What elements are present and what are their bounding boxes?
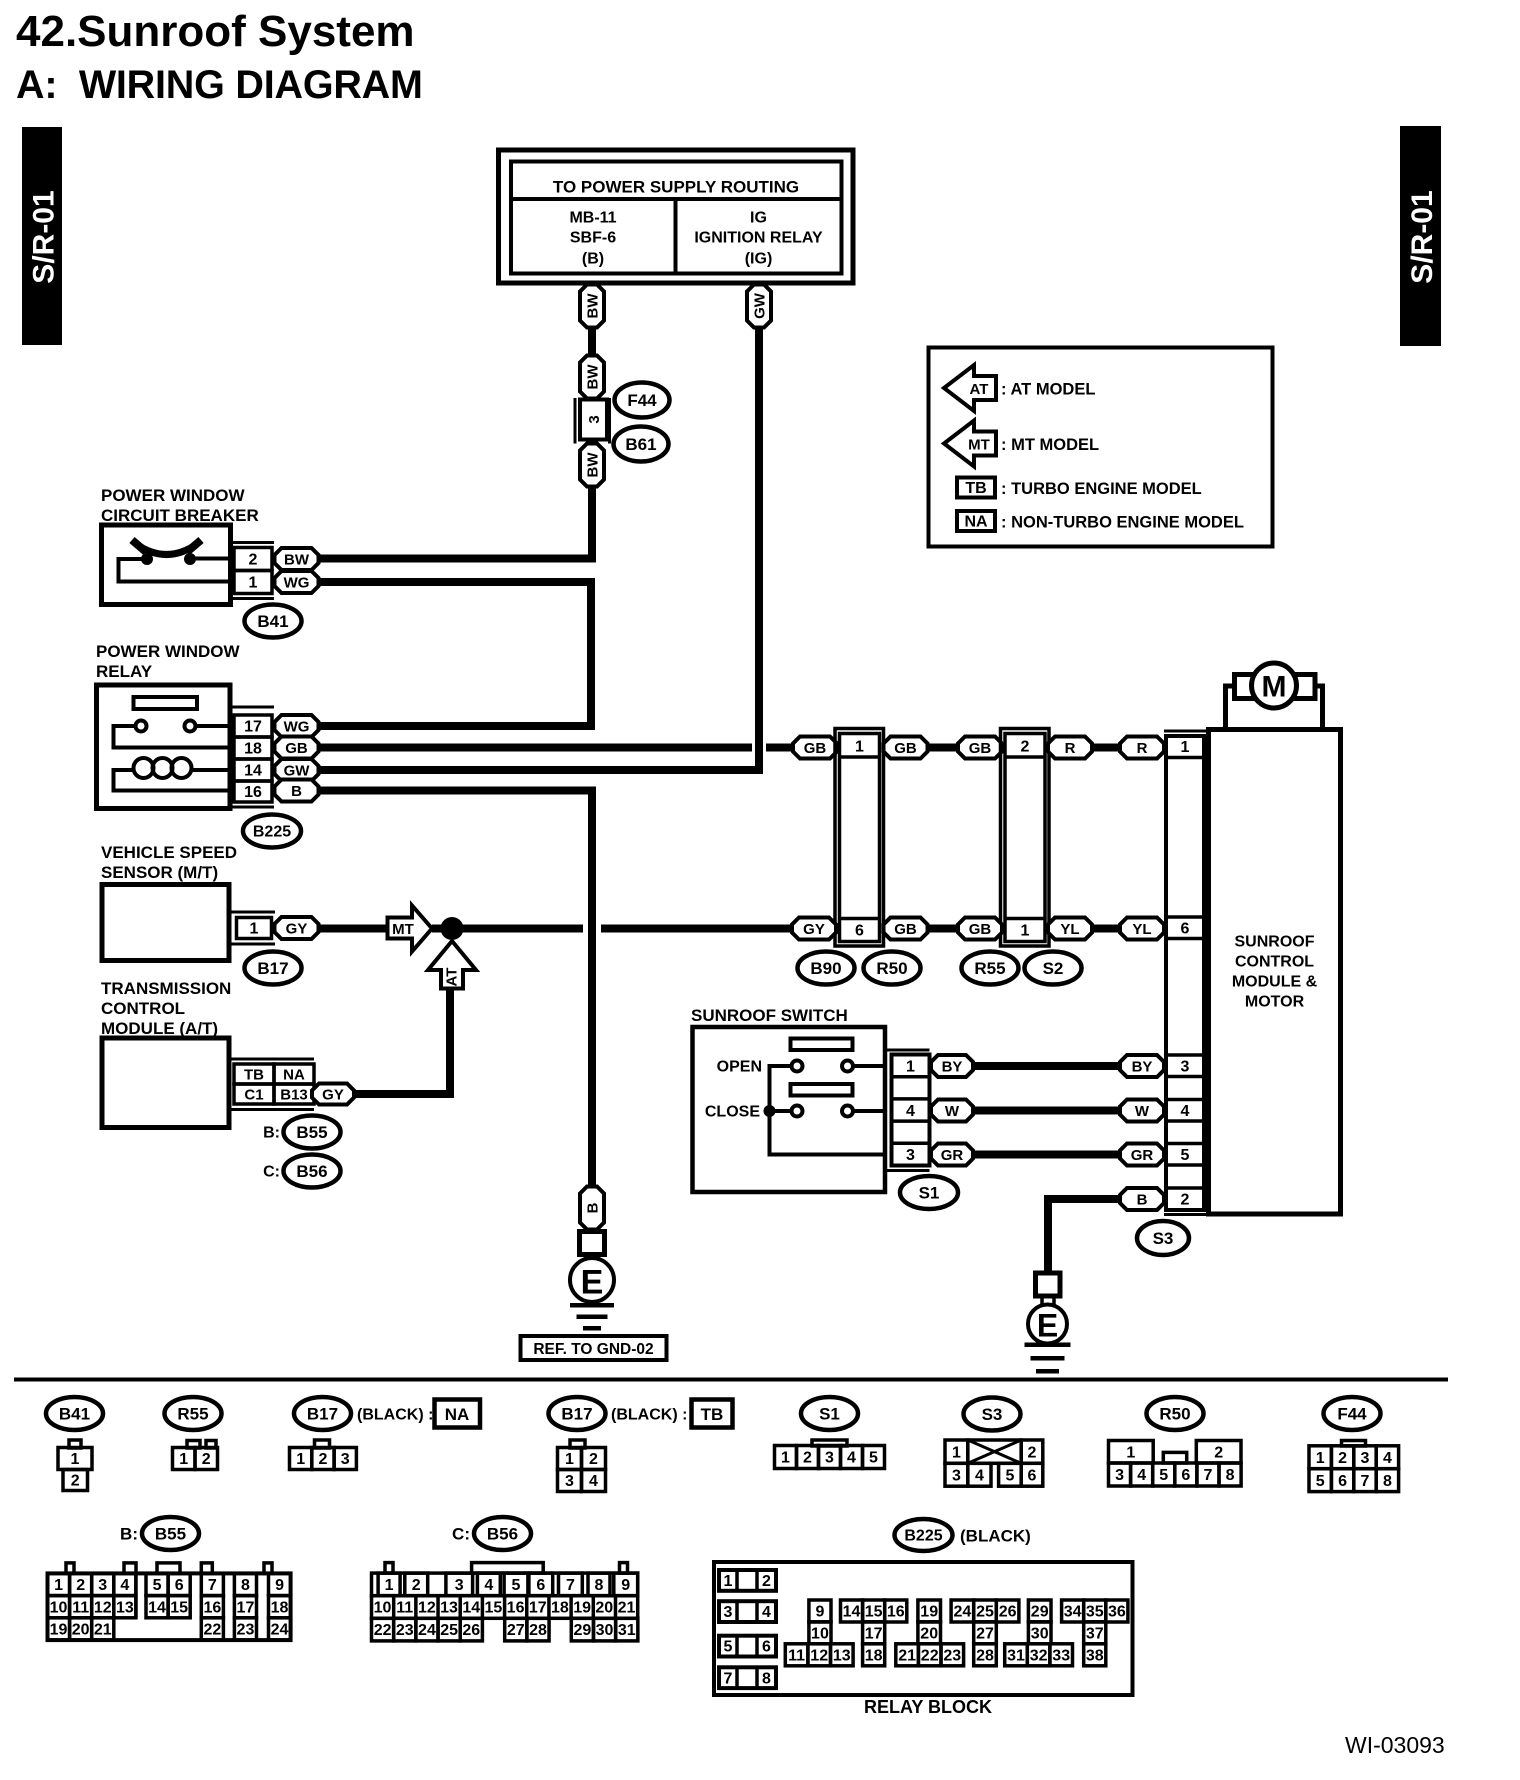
svg-text:GB: GB xyxy=(969,921,992,938)
svg-text:1: 1 xyxy=(906,1059,915,1076)
svg-text:S3: S3 xyxy=(982,1405,1003,1424)
wire GB between strips bottom xyxy=(928,925,958,933)
connector GY chain xyxy=(792,918,836,940)
wire GY speed sensor xyxy=(318,925,388,933)
svg-text:RELAY: RELAY xyxy=(96,662,153,681)
page tab S/R-01 right xyxy=(1400,126,1441,346)
svg-text:NA: NA xyxy=(964,514,988,531)
svg-text:31: 31 xyxy=(618,1622,636,1639)
svg-text:4: 4 xyxy=(484,1577,493,1594)
svg-text:YL: YL xyxy=(1060,921,1079,938)
sunroof control module box xyxy=(1209,730,1341,1215)
svg-text:BY: BY xyxy=(942,1058,963,1075)
svg-text:19: 19 xyxy=(573,1600,591,1617)
svg-text:(BLACK) :: (BLACK) : xyxy=(357,1407,433,1424)
svg-text:TRANSMISSION: TRANSMISSION xyxy=(101,979,231,998)
motor M xyxy=(1226,663,1323,729)
connector GB chain 4 xyxy=(884,918,928,940)
svg-text:(BLACK) :: (BLACK) : xyxy=(611,1407,687,1424)
svg-text:3: 3 xyxy=(1361,1450,1370,1467)
svg-text:: MT MODEL: : MT MODEL xyxy=(1001,436,1099,454)
ground symbol left xyxy=(570,1303,614,1331)
svg-text:2: 2 xyxy=(589,1451,598,1468)
legend AT model arrow xyxy=(944,365,1095,411)
svg-text:14: 14 xyxy=(462,1600,480,1617)
svg-text:7: 7 xyxy=(724,1670,733,1687)
speed sensor terminal housing xyxy=(230,912,276,944)
svg-text:16: 16 xyxy=(507,1600,525,1617)
svg-text:33: 33 xyxy=(1052,1647,1070,1664)
connector oval B17 xyxy=(245,952,302,985)
svg-text:S1: S1 xyxy=(919,1183,940,1202)
terminal TB xyxy=(234,1064,274,1084)
svg-text:R: R xyxy=(1137,740,1148,757)
svg-text:1: 1 xyxy=(1316,1450,1325,1467)
svg-text:29: 29 xyxy=(1031,1604,1049,1621)
svg-text:30: 30 xyxy=(1031,1625,1049,1642)
junction dot xyxy=(441,917,464,940)
power supply routing box xyxy=(499,150,854,283)
wire WG breaker to relay pin 17 xyxy=(318,578,595,730)
label power window circuit breaker xyxy=(101,486,259,525)
svg-text:2: 2 xyxy=(249,552,258,569)
svg-text:B:: B: xyxy=(120,1524,138,1543)
svg-text:TO POWER SUPPLY ROUTING: TO POWER SUPPLY ROUTING xyxy=(553,177,799,196)
connector BY at switch xyxy=(931,1055,973,1077)
terminal 18 xyxy=(234,737,272,759)
svg-text:POWER WINDOW: POWER WINDOW xyxy=(96,642,240,661)
connector GR at module xyxy=(1120,1144,1164,1166)
svg-text:21: 21 xyxy=(618,1600,636,1617)
connector view B41 xyxy=(46,1397,103,1491)
svg-text:15: 15 xyxy=(865,1604,883,1621)
svg-text:SENSOR (M/T): SENSOR (M/T) xyxy=(101,863,218,882)
svg-text:C:: C: xyxy=(263,1164,280,1181)
svg-text:14: 14 xyxy=(843,1604,861,1621)
svg-text:21: 21 xyxy=(898,1647,916,1664)
wire GY junction to module (break at ground wire) xyxy=(432,925,791,933)
svg-text:4: 4 xyxy=(120,1577,129,1594)
svg-text:11: 11 xyxy=(72,1599,89,1616)
connector view B55 xyxy=(48,1517,291,1640)
switch terminal strip xyxy=(892,1055,930,1166)
ground terminal left xyxy=(570,1232,614,1303)
separator line xyxy=(14,1378,1448,1382)
svg-text:3: 3 xyxy=(98,1577,107,1594)
connector oval S1 xyxy=(900,1176,958,1209)
svg-text:TB: TB xyxy=(701,1405,724,1424)
terminal NA xyxy=(274,1064,314,1084)
svg-text:4: 4 xyxy=(1383,1450,1392,1467)
svg-text:B: B xyxy=(291,783,302,800)
svg-text:GW: GW xyxy=(284,762,311,779)
svg-text:MB-11: MB-11 xyxy=(569,210,616,227)
svg-text:8: 8 xyxy=(1383,1473,1392,1490)
svg-text:20: 20 xyxy=(920,1625,938,1642)
svg-text:2: 2 xyxy=(762,1573,771,1590)
svg-text:B: B xyxy=(584,1202,601,1213)
svg-text:18: 18 xyxy=(551,1600,569,1617)
connector WG at relay xyxy=(275,715,319,737)
terminal B13 xyxy=(274,1084,314,1104)
svg-text:23: 23 xyxy=(237,1622,255,1639)
terminal 16 xyxy=(234,781,272,802)
svg-text:22: 22 xyxy=(203,1622,221,1639)
power window relay B225 box xyxy=(97,685,231,809)
svg-text:BW: BW xyxy=(584,452,601,478)
connector W at switch xyxy=(931,1100,973,1122)
module terminal strip xyxy=(1166,736,1204,1210)
wire R to module xyxy=(1092,744,1120,752)
svg-text:WG: WG xyxy=(284,574,310,591)
label transmission control module xyxy=(101,979,231,1038)
connector YL at module xyxy=(1120,918,1164,940)
svg-text:1: 1 xyxy=(296,1451,305,1468)
connector GW xyxy=(747,285,771,328)
svg-text:18: 18 xyxy=(865,1647,883,1664)
transmission control module box xyxy=(102,1038,229,1128)
svg-text:OPEN: OPEN xyxy=(717,1059,762,1076)
svg-text:5: 5 xyxy=(869,1450,878,1467)
terminal 17 xyxy=(234,715,272,737)
wire W xyxy=(973,1107,1120,1115)
wire GY TCM to AT arrow xyxy=(354,989,454,1099)
svg-text:CONTROL: CONTROL xyxy=(101,999,185,1018)
svg-text:1: 1 xyxy=(855,739,864,756)
svg-text:5: 5 xyxy=(153,1577,162,1594)
svg-text:12: 12 xyxy=(94,1599,112,1616)
svg-text:13: 13 xyxy=(833,1647,851,1664)
svg-text:S3: S3 xyxy=(1153,1229,1174,1248)
circuit breaker B41 box xyxy=(102,525,231,605)
svg-text:3: 3 xyxy=(1115,1467,1124,1484)
svg-text:GW: GW xyxy=(751,292,768,319)
svg-text:B17: B17 xyxy=(257,959,288,978)
svg-text:12: 12 xyxy=(418,1600,436,1617)
wire BW vertical from power supply xyxy=(588,327,596,357)
svg-text:4: 4 xyxy=(906,1103,915,1120)
svg-text:13: 13 xyxy=(116,1599,134,1616)
svg-text:TB: TB xyxy=(244,1066,264,1083)
svg-text:S/R-01: S/R-01 xyxy=(28,190,61,283)
svg-text:3: 3 xyxy=(586,415,603,423)
svg-text:GB: GB xyxy=(285,740,308,757)
svg-text:CONTROL: CONTROL xyxy=(1235,954,1314,971)
connector oval B90 xyxy=(798,952,855,985)
svg-text:16: 16 xyxy=(244,784,262,801)
svg-text:R: R xyxy=(1065,740,1076,757)
svg-text:1: 1 xyxy=(1021,923,1030,940)
svg-text:2: 2 xyxy=(1181,1192,1190,1209)
connector BW at breaker xyxy=(275,548,319,570)
module terminal housing xyxy=(1164,731,1208,1215)
svg-text:B41: B41 xyxy=(59,1404,90,1423)
svg-text:F44: F44 xyxy=(627,391,657,410)
page tab S/R-01 left xyxy=(22,127,62,345)
svg-text:14: 14 xyxy=(244,763,262,780)
svg-text:R55: R55 xyxy=(974,959,1005,978)
svg-text:YL: YL xyxy=(1132,921,1151,938)
connector YL chain 1 xyxy=(1048,918,1092,940)
svg-text:19: 19 xyxy=(50,1622,68,1639)
svg-text:3: 3 xyxy=(1181,1059,1190,1076)
connector oval B225 xyxy=(243,815,301,848)
connector GB chain 1 xyxy=(793,737,837,759)
svg-text:10: 10 xyxy=(374,1600,392,1617)
svg-text:2: 2 xyxy=(1021,739,1030,756)
svg-text:3: 3 xyxy=(906,1147,915,1164)
svg-text:6: 6 xyxy=(536,1577,545,1594)
svg-text:BY: BY xyxy=(1132,1058,1153,1075)
svg-text:13: 13 xyxy=(440,1600,458,1617)
svg-text:B17: B17 xyxy=(307,1404,338,1423)
wire BW breaker to supply xyxy=(318,555,596,563)
svg-text:B17: B17 xyxy=(561,1404,592,1423)
svg-text:30: 30 xyxy=(596,1622,614,1639)
svg-text:S2: S2 xyxy=(1043,959,1064,978)
svg-text:28: 28 xyxy=(976,1647,994,1664)
svg-text:GB: GB xyxy=(894,921,917,938)
svg-text:25: 25 xyxy=(440,1622,458,1639)
svg-text:B:: B: xyxy=(263,1125,280,1142)
terminal 2 xyxy=(234,548,272,571)
wire YL to module xyxy=(1092,925,1120,933)
svg-text:16: 16 xyxy=(887,1604,905,1621)
svg-text:9: 9 xyxy=(621,1577,630,1594)
wire BW to circuit breaker junction xyxy=(588,486,596,562)
svg-text:1: 1 xyxy=(1126,1444,1135,1461)
svg-text:5: 5 xyxy=(512,1577,521,1594)
svg-text:2: 2 xyxy=(71,1473,80,1490)
svg-text:SUNROOF: SUNROOF xyxy=(1235,934,1315,951)
connector view S1 xyxy=(775,1397,885,1469)
svg-text:7: 7 xyxy=(208,1577,217,1594)
svg-text:SBF-6: SBF-6 xyxy=(570,230,616,247)
svg-text:POWER WINDOW: POWER WINDOW xyxy=(101,486,245,505)
MT model arrow xyxy=(388,906,433,952)
svg-text:2: 2 xyxy=(1338,1450,1347,1467)
svg-text:1: 1 xyxy=(952,1444,961,1461)
svg-text:17: 17 xyxy=(244,719,262,736)
svg-text:29: 29 xyxy=(573,1622,591,1639)
svg-text:26: 26 xyxy=(999,1604,1017,1621)
wire B module to ground xyxy=(1044,1195,1122,1273)
svg-text:7: 7 xyxy=(1361,1473,1370,1490)
svg-text:MODULE &: MODULE & xyxy=(1232,974,1318,991)
svg-text:8: 8 xyxy=(1226,1467,1235,1484)
svg-text:17: 17 xyxy=(865,1625,883,1642)
terminal 1 xyxy=(234,571,272,594)
connector view B225 relay block xyxy=(714,1519,1133,1717)
svg-text:RELAY BLOCK: RELAY BLOCK xyxy=(864,1697,992,1717)
wire GB relay to R50 strip (break at GW crossing) xyxy=(318,744,793,752)
svg-text:B: B xyxy=(1137,1191,1148,1208)
AT model arrow xyxy=(428,941,476,989)
svg-text:15: 15 xyxy=(170,1599,188,1616)
connector R chain 1 xyxy=(1048,737,1092,759)
svg-text:GY: GY xyxy=(803,921,825,938)
svg-text:2: 2 xyxy=(1028,1444,1037,1461)
svg-text:1: 1 xyxy=(54,1577,63,1594)
wire BY xyxy=(973,1062,1120,1070)
svg-text:1: 1 xyxy=(249,575,258,592)
connector oval R50 xyxy=(864,952,921,985)
svg-text:BW: BW xyxy=(284,551,310,568)
svg-text:42.Sunroof System: 42.Sunroof System xyxy=(16,7,415,56)
svg-text:C:: C: xyxy=(452,1524,470,1543)
svg-text:CIRCUIT BREAKER: CIRCUIT BREAKER xyxy=(101,506,259,525)
wire B relay to ground xyxy=(318,787,596,1187)
connector GY at TCM xyxy=(312,1084,354,1105)
connector GY at speed sensor xyxy=(275,917,319,939)
svg-text:18: 18 xyxy=(244,741,262,758)
svg-text:36: 36 xyxy=(1108,1604,1126,1621)
terminal C1 xyxy=(234,1084,274,1104)
connector oval B41 xyxy=(245,605,302,638)
svg-text:24: 24 xyxy=(954,1604,972,1621)
svg-text:MOTOR: MOTOR xyxy=(1245,994,1305,1011)
svg-text:18: 18 xyxy=(271,1599,289,1616)
connector view S3 xyxy=(945,1398,1043,1487)
svg-text:6: 6 xyxy=(1181,1467,1190,1484)
switch terminal housing xyxy=(887,1050,930,1171)
connector oval B56 ref xyxy=(263,1155,340,1188)
connector oval R55 xyxy=(962,952,1019,985)
svg-text:3: 3 xyxy=(565,1473,574,1490)
connector GB chain 2 xyxy=(884,737,928,759)
svg-text:(IG): (IG) xyxy=(745,251,773,268)
svg-text:20: 20 xyxy=(595,1600,613,1617)
label vehicle speed sensor xyxy=(101,843,237,882)
svg-text:B55: B55 xyxy=(155,1524,186,1543)
svg-text:GR: GR xyxy=(1131,1147,1154,1164)
svg-text:BW: BW xyxy=(584,293,601,319)
label power window relay xyxy=(96,642,240,681)
svg-text:5: 5 xyxy=(724,1639,733,1656)
connector view R55 xyxy=(165,1397,222,1470)
svg-text:2: 2 xyxy=(202,1451,211,1468)
svg-text:37: 37 xyxy=(1086,1625,1104,1642)
svg-text:: TURBO ENGINE MODEL: : TURBO ENGINE MODEL xyxy=(1001,480,1202,498)
connector oval B55 ref xyxy=(263,1116,340,1149)
svg-text:5: 5 xyxy=(1159,1467,1168,1484)
svg-text:34: 34 xyxy=(1064,1604,1082,1621)
svg-text:6: 6 xyxy=(1028,1467,1037,1484)
svg-text:GY: GY xyxy=(322,1086,344,1103)
svg-text:2: 2 xyxy=(803,1450,812,1467)
svg-text:: NON-TURBO ENGINE MODEL: : NON-TURBO ENGINE MODEL xyxy=(1001,513,1244,531)
svg-text:14: 14 xyxy=(148,1599,166,1616)
connector GB chain 5 xyxy=(958,918,1002,940)
svg-text:1: 1 xyxy=(179,1451,188,1468)
svg-text:6: 6 xyxy=(1338,1473,1347,1490)
svg-text:W: W xyxy=(1135,1103,1150,1120)
wire GW vertical to relay pin 14 xyxy=(317,327,763,774)
relay terminal housing xyxy=(231,707,275,807)
svg-text:MODULE (A/T): MODULE (A/T) xyxy=(101,1019,218,1038)
legend TB turbo model xyxy=(957,478,1202,498)
svg-text:24: 24 xyxy=(271,1622,289,1639)
svg-text:4: 4 xyxy=(1181,1103,1190,1120)
connector WG at breaker xyxy=(275,571,319,593)
ground terminal right xyxy=(1028,1273,1067,1344)
svg-text:B90: B90 xyxy=(810,959,841,978)
connector B at relay xyxy=(275,780,319,802)
svg-text:B56: B56 xyxy=(296,1162,327,1181)
svg-text:M: M xyxy=(1262,671,1287,704)
svg-text:E: E xyxy=(1037,1308,1058,1344)
svg-text:AT: AT xyxy=(970,381,989,398)
svg-text:B55: B55 xyxy=(296,1123,327,1142)
svg-text:28: 28 xyxy=(529,1622,547,1639)
svg-text:8: 8 xyxy=(762,1670,771,1687)
svg-text:TB: TB xyxy=(965,480,986,497)
svg-text:W: W xyxy=(945,1103,960,1120)
svg-text:3: 3 xyxy=(952,1467,961,1484)
svg-text:2: 2 xyxy=(76,1577,85,1594)
svg-text:16: 16 xyxy=(203,1599,221,1616)
svg-text:24: 24 xyxy=(418,1622,436,1639)
svg-text:VEHICLE SPEED: VEHICLE SPEED xyxy=(101,843,237,862)
svg-text:: AT MODEL: : AT MODEL xyxy=(1001,380,1095,398)
connector GR at switch xyxy=(931,1144,973,1166)
svg-text:S1: S1 xyxy=(819,1404,840,1423)
svg-text:B56: B56 xyxy=(487,1524,518,1543)
svg-text:6: 6 xyxy=(1181,921,1190,938)
svg-text:REF. TO GND-02: REF. TO GND-02 xyxy=(533,1341,653,1358)
connector BW (top) xyxy=(580,285,604,328)
svg-text:R50: R50 xyxy=(1159,1404,1190,1423)
svg-text:1: 1 xyxy=(565,1451,574,1468)
svg-text:C1: C1 xyxy=(244,1086,263,1103)
svg-text:CLOSE: CLOSE xyxy=(705,1104,760,1121)
wire GR xyxy=(973,1151,1120,1159)
svg-text:32: 32 xyxy=(1030,1647,1048,1664)
svg-text:A: WIRING DIAGRAM: A: WIRING DIAGRAM xyxy=(16,63,423,107)
svg-text:2: 2 xyxy=(412,1577,421,1594)
svg-text:2: 2 xyxy=(1214,1444,1223,1461)
svg-text:BW: BW xyxy=(584,364,601,390)
terminal 1 speed sensor xyxy=(237,918,272,939)
connector view B56 xyxy=(372,1517,638,1641)
svg-text:9: 9 xyxy=(275,1577,284,1594)
svg-text:4: 4 xyxy=(847,1450,856,1467)
svg-text:19: 19 xyxy=(920,1604,938,1621)
svg-text:27: 27 xyxy=(976,1625,994,1642)
svg-text:5: 5 xyxy=(1005,1467,1014,1484)
connector view B17 (BLACK) NA xyxy=(290,1397,481,1470)
connector oval S3 xyxy=(1137,1221,1189,1255)
svg-text:22: 22 xyxy=(921,1647,939,1664)
connector strip R50 (pins 1/6) xyxy=(835,729,884,947)
svg-text:B13: B13 xyxy=(280,1086,308,1103)
connector oval F44 xyxy=(615,383,670,418)
ground symbol right xyxy=(1025,1343,1071,1374)
svg-text:IG: IG xyxy=(750,210,767,227)
svg-text:10: 10 xyxy=(811,1625,829,1642)
svg-text:IGNITION RELAY: IGNITION RELAY xyxy=(694,230,823,247)
terminal 14 xyxy=(234,759,272,781)
svg-text:3: 3 xyxy=(724,1604,733,1621)
svg-text:38: 38 xyxy=(1086,1647,1104,1664)
svg-text:15: 15 xyxy=(485,1600,503,1617)
svg-text:3: 3 xyxy=(825,1450,834,1467)
svg-text:25: 25 xyxy=(976,1604,994,1621)
svg-text:2: 2 xyxy=(318,1451,327,1468)
vehicle speed sensor B17 box xyxy=(102,885,229,961)
svg-text:R55: R55 xyxy=(177,1404,208,1423)
svg-text:SUNROOF SWITCH: SUNROOF SWITCH xyxy=(691,1006,848,1025)
